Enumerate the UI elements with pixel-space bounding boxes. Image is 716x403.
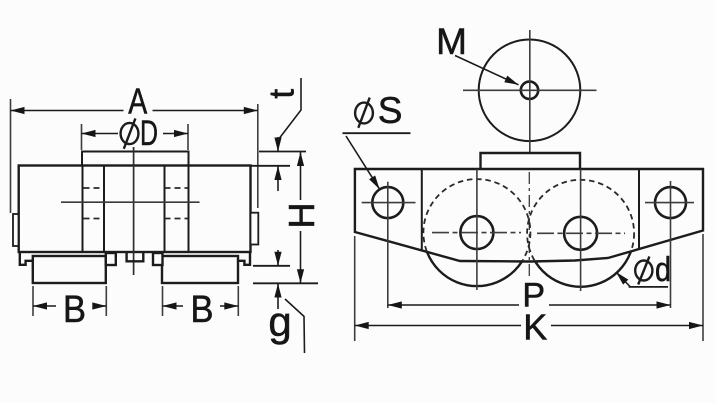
svg-text:D: D	[140, 114, 158, 153]
bracket center U lug	[127, 253, 144, 262]
inner vertical plate line 1	[82, 166, 84, 253]
dim B right line	[163, 305, 184, 307]
main body	[19, 166, 251, 253]
M leader	[455, 56, 519, 85]
right side tab	[251, 213, 259, 245]
bracket tab right of left wheel	[106, 253, 116, 265]
dim A extension right	[257, 104, 259, 208]
dim phiD extension right	[187, 124, 189, 150]
dim phiD line	[82, 133, 119, 135]
crosshair vertical	[529, 30, 531, 171]
left side tab	[13, 214, 19, 246]
svg-text:g: g	[268, 298, 291, 345]
hidden dashed line upper-left	[84, 187, 105, 189]
t plate-top line extended	[259, 151, 306, 153]
right wheel solid bottom arc	[527, 180, 634, 287]
inner vertical plate line 3	[164, 166, 166, 253]
wheel-bottom line extended	[253, 282, 318, 284]
left hub circle	[460, 216, 493, 249]
left wheel	[33, 256, 106, 283]
dim H line lower	[300, 231, 302, 283]
right wheel	[162, 256, 238, 283]
label phid	[635, 251, 671, 289]
vertical center line	[133, 147, 135, 275]
g leader	[285, 299, 305, 353]
dim H line upper	[300, 152, 302, 200]
phid underline	[629, 286, 668, 288]
svg-text:d: d	[655, 251, 671, 289]
svg-text:H: H	[281, 203, 322, 229]
hidden dashed line upper-right	[165, 187, 189, 189]
svg-text:t: t	[263, 89, 302, 99]
phiS hole left	[372, 187, 403, 218]
label phiD	[121, 114, 158, 153]
inner vertical plate line 4	[188, 166, 190, 253]
left hub crosshair	[432, 232, 521, 234]
svg-text:B: B	[191, 289, 214, 331]
dim A extension left	[10, 99, 12, 213]
label phiS	[355, 90, 402, 131]
svg-text:M: M	[436, 21, 467, 62]
phiS leader	[346, 136, 380, 189]
dim B left line	[33, 305, 56, 307]
phiS hole right	[655, 187, 686, 218]
center line of right view	[528, 172, 530, 276]
svg-text:B: B	[63, 289, 86, 331]
right hub circle	[564, 217, 597, 250]
dim B right: extensions	[162, 286, 164, 316]
dim K extensions	[354, 236, 356, 341]
dim P line	[388, 304, 519, 306]
bracket outer-left	[20, 252, 33, 265]
dim K line	[355, 325, 521, 327]
top plate	[82, 152, 189, 166]
svg-text:K: K	[523, 307, 547, 348]
phiS underline	[343, 132, 411, 134]
right hub crosshair	[537, 232, 625, 234]
g arrow upper	[277, 250, 279, 266]
crosshair horizontal	[463, 89, 597, 91]
left wheel solid bottom arc	[423, 179, 530, 286]
hidden dashed line lower-left	[84, 218, 105, 220]
axle center line	[61, 201, 200, 203]
neck	[481, 153, 581, 169]
g arrow lower	[277, 284, 279, 310]
g bracket-bottom line extended	[253, 265, 290, 267]
t body-top line extended	[250, 165, 290, 167]
bracket tab left of right wheel	[153, 253, 163, 265]
t leader	[279, 78, 301, 139]
dim B left: extensions	[32, 286, 34, 316]
dim phiD extension left	[81, 124, 83, 150]
hook wheel circle M	[479, 40, 581, 142]
svg-text:S: S	[378, 90, 403, 131]
t arrow lower	[277, 166, 279, 191]
t arrow upper	[277, 137, 279, 152]
inner vertical right	[638, 169, 640, 249]
bracket outer-right	[237, 252, 250, 265]
left wheel dashed circle	[423, 179, 530, 286]
hidden dashed line lower-right	[165, 218, 189, 220]
hook hub small circle	[521, 82, 538, 99]
inner vertical plate line 2	[103, 166, 105, 253]
phid leader	[616, 272, 630, 287]
inner vertical left	[421, 169, 423, 251]
right wheel dashed circle	[527, 180, 634, 287]
dim A line	[11, 110, 124, 112]
